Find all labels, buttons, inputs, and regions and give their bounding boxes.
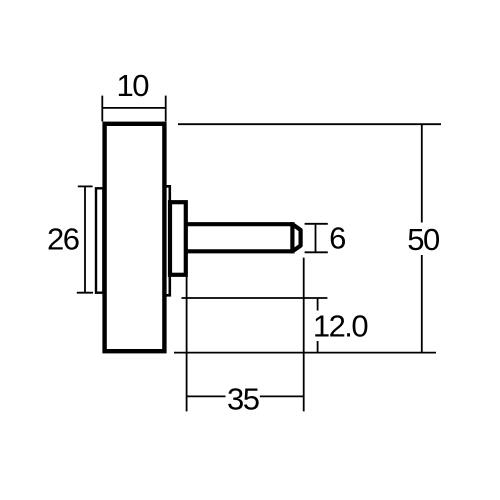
svg-text:50: 50 [407, 222, 440, 257]
left flange plate [96, 188, 103, 292]
hub block [170, 202, 186, 275]
dimension 10: dimension line [102, 107, 165, 109]
svg-text:26: 26 [47, 221, 79, 256]
svg-text:12.0: 12.0 [313, 309, 369, 344]
svg-text:10: 10 [117, 68, 150, 103]
dimension 50: bottom extension line [174, 352, 436, 354]
dimension 50: top extension line [178, 123, 441, 125]
dimension 6: bottom tick [305, 251, 328, 253]
dimension 10: left extension line [101, 96, 103, 122]
wheel body (side view rectangle) [105, 124, 165, 351]
svg-text:6: 6 [329, 220, 345, 255]
dimension 50: dimension line upper segment [421, 124, 423, 222]
dimension 26: bottom tick [77, 292, 93, 294]
dimension 26: dimension line [84, 186, 86, 292]
dimension 12.0: dimension line upper segment [317, 298, 319, 311]
dimension 50: dimension line lower segment [421, 255, 423, 353]
dimension 10: right extension line [165, 96, 167, 122]
svg-text:35: 35 [227, 382, 259, 417]
dimension 26: top tick [78, 185, 93, 187]
shaft bottom line [186, 249, 293, 253]
dimension 6: top tick [305, 223, 328, 225]
dimension 35: dimension line left segment [187, 395, 226, 397]
washer / boss plate between body and hub [164, 186, 169, 295]
dimension 12.0: dimension line lower segment [317, 341, 319, 353]
dimension 35: right extension line [303, 258, 305, 412]
dimension 6: dimension line [315, 224, 317, 253]
shaft top line [186, 222, 293, 226]
shaft chamfered tip [292, 224, 300, 251]
dimension 35: left extension line [186, 277, 188, 412]
shaft end edge [290, 222, 294, 253]
dimension 35: dimension line right segment [260, 395, 304, 397]
dimension 12.0: top extension line [182, 297, 328, 299]
